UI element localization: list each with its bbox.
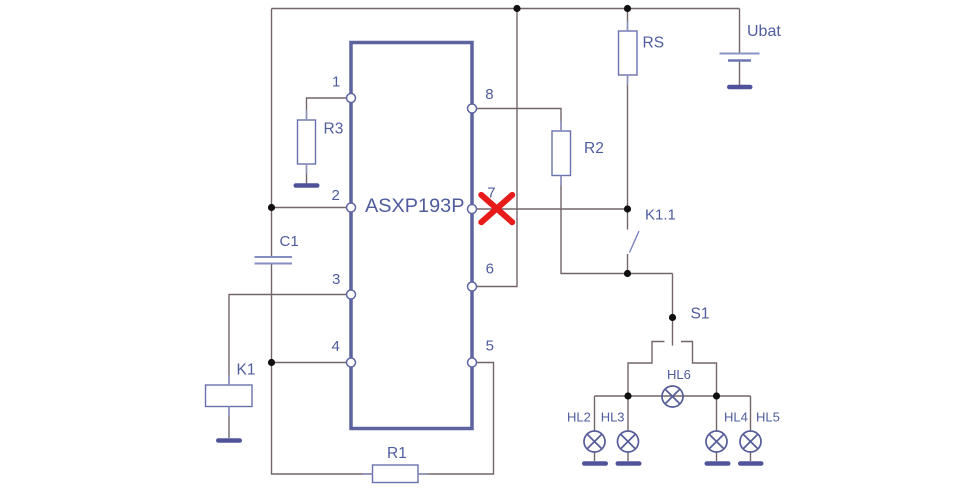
relay contact K1.1 blade [630, 231, 640, 253]
svg-text:8: 8 [485, 86, 493, 103]
resistor R1 [373, 445, 419, 483]
node top rail / RS [624, 5, 631, 12]
pin 8 [468, 86, 494, 113]
svg-text:6: 6 [486, 261, 494, 278]
wire K1.1 lower contact [627, 254, 629, 274]
capacitor C1 [255, 233, 299, 264]
node left rail / pin4 [268, 359, 275, 366]
node S1 common [669, 314, 676, 321]
svg-text:HL5: HL5 [756, 410, 780, 425]
svg-text:HL2: HL2 [567, 410, 591, 425]
svg-text:HL3: HL3 [601, 410, 625, 425]
wire left rail vertical upper [271, 9, 273, 208]
wire pin3 to K1 top [229, 295, 348, 386]
wire RS bottom to K1.1 node [627, 75, 629, 209]
wire left rail to C1 top [271, 208, 273, 257]
wire R1 right to pin5 [418, 363, 494, 475]
wire battery to ground [739, 61, 741, 85]
node top rail / pin6 riser [513, 5, 520, 12]
wire HL5 drop [750, 396, 752, 432]
svg-text:RS: RS [643, 35, 665, 52]
pin 2 [332, 187, 356, 212]
pin 6 [468, 261, 494, 292]
wire pin1 to R3 top [307, 98, 349, 120]
svg-text:K1: K1 [237, 362, 256, 379]
pin 3 [332, 271, 356, 299]
svg-text:5: 5 [486, 338, 494, 355]
ground under HL3 [618, 461, 639, 466]
wire R2 bottom to bottom node [561, 176, 673, 274]
svg-text:R1: R1 [387, 445, 407, 462]
wire pin2 to left rail [272, 207, 349, 209]
pin 4 [332, 338, 356, 367]
svg-text:Ubat: Ubat [747, 23, 781, 40]
lamp HL3 [601, 410, 639, 453]
ground under HL2 [584, 461, 605, 466]
wire K1 bottom to ground [228, 407, 230, 439]
node lamp bus / HL3 [624, 392, 631, 399]
wire HL2 drop [594, 396, 596, 432]
ground under HL4 [707, 461, 728, 466]
wire top rail to RS [627, 9, 629, 32]
svg-text:4: 4 [332, 338, 340, 355]
svg-text:ASXP193P: ASXP193P [365, 196, 465, 217]
wire R3 bottom to ground [306, 164, 308, 184]
wire S1 left throw to lamp bus [628, 342, 665, 397]
wire lamp bus [595, 395, 751, 397]
relay coil K1 [206, 362, 256, 407]
svg-text:R3: R3 [324, 121, 344, 138]
wire HL3 drop [627, 396, 629, 432]
wire HL5 to ground [750, 453, 752, 462]
svg-text:3: 3 [332, 271, 340, 288]
svg-text:C1: C1 [280, 233, 299, 250]
svg-text:HL6: HL6 [667, 367, 691, 382]
svg-text:1: 1 [332, 74, 340, 91]
resistor R3 [298, 120, 316, 164]
ground under K1 [218, 438, 239, 443]
wire HL2 to ground [594, 453, 596, 462]
wire S1 feed and blade [672, 274, 674, 346]
resistor RS [619, 31, 665, 75]
wire pin6 riser to top rail [476, 9, 517, 287]
svg-text:2: 2 [332, 187, 340, 204]
node pin7 / K1.1 [624, 205, 631, 212]
svg-text:R2: R2 [584, 140, 604, 157]
wire HL3 to ground [627, 453, 629, 462]
wire battery drop [739, 9, 741, 54]
svg-text:K1.1: K1.1 [645, 207, 676, 224]
wire C1 bottom to bottom rail and R1 left [272, 264, 373, 475]
wire K1.1 upper contact [627, 209, 629, 230]
wire pin8 to R2 top [476, 109, 561, 132]
lamp HL5 [740, 410, 780, 453]
svg-text:HL4: HL4 [724, 410, 748, 425]
IC U1 ASXP193P body [351, 43, 472, 429]
resistor R2 [552, 131, 604, 176]
wire top supply rail [272, 8, 740, 10]
pin 7 [468, 185, 496, 214]
wire S1 right throw to lamp bus [681, 342, 717, 397]
node K1.1 / bottom rail [624, 270, 631, 277]
wire HL4 to ground [716, 453, 718, 462]
wire pin4 to left rail [272, 362, 349, 364]
pin 5 [468, 338, 494, 368]
battery Ubat [720, 23, 782, 61]
node lamp bus / HL4 [713, 392, 720, 399]
lamp HL6 [662, 367, 691, 407]
node left rail / pin2 [268, 204, 275, 211]
resistor lead stubs [229, 21, 628, 474]
lamp HL4 [706, 410, 748, 453]
ground under HL5 [740, 461, 761, 466]
pin 1 [332, 74, 356, 103]
wire pin7 to K1.1 [476, 208, 628, 210]
wire HL4 drop [716, 396, 718, 432]
error cross X on pin7 net [481, 195, 512, 222]
svg-text:S1: S1 [691, 306, 710, 323]
ground under R3 [296, 183, 317, 188]
lamp HL2 [567, 410, 605, 453]
ground under battery [729, 85, 750, 90]
